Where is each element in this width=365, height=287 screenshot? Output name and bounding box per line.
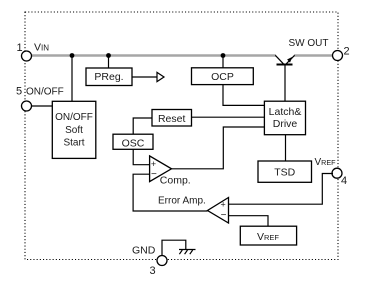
pin 1 VIN terminal xyxy=(22,51,32,61)
wire: PReg. output with open arrowhead xyxy=(132,72,164,81)
svg-text:Latch&: Latch& xyxy=(269,106,302,118)
svg-text:SW OUT: SW OUT xyxy=(289,38,329,49)
svg-text:VREF: VREF xyxy=(257,231,279,243)
wire: pin 3 to ground symbol xyxy=(162,240,186,255)
block: OSC xyxy=(113,134,153,149)
ground symbol xyxy=(179,250,196,255)
svg-text:−: − xyxy=(221,210,227,221)
wire: Error Amp. output to Comp. - input xyxy=(133,174,207,211)
wire: OSC output to Comp. + input xyxy=(133,149,149,164)
wire: Comp. output to Latch&Drive xyxy=(172,127,265,169)
op-amp Comp. (comparator) xyxy=(150,156,191,187)
block: PReg. xyxy=(86,68,132,86)
svg-text:5: 5 xyxy=(16,86,22,98)
wire: Reset left to OSC top xyxy=(133,118,152,134)
svg-text:+: + xyxy=(151,159,156,169)
wire: pin 4 to Error Amp. + input xyxy=(229,174,334,205)
wire: VIN rail (gray) from pin 1 to transistor xyxy=(32,54,277,56)
block: VREF reference xyxy=(240,226,296,245)
svg-text:OCP: OCP xyxy=(211,71,234,83)
wire: Error Amp. - input to VREF reference xyxy=(229,216,269,227)
node: VIN rail junction to OCP xyxy=(221,53,226,58)
pin 5 ON/OFF terminal xyxy=(22,101,32,111)
block: TSD xyxy=(258,161,312,182)
pin 3 GND terminal xyxy=(157,256,167,266)
svg-text:OSC: OSC xyxy=(122,137,145,149)
wire: Reset output to Latch&Drive xyxy=(192,116,265,118)
svg-text:Start: Start xyxy=(63,138,84,149)
pin 2 SW OUT terminal xyxy=(333,51,343,61)
svg-text:1: 1 xyxy=(16,42,22,54)
svg-text:Drive: Drive xyxy=(273,118,298,130)
svg-text:VIN: VIN xyxy=(34,41,49,53)
svg-text:Soft: Soft xyxy=(65,125,83,136)
wire: VIN rail to OCP top xyxy=(222,56,224,68)
svg-text:Reset: Reset xyxy=(158,113,186,125)
svg-text:Comp.: Comp. xyxy=(160,175,191,187)
op-amp Error Amp. xyxy=(158,195,229,223)
svg-text:3: 3 xyxy=(149,265,155,277)
wire: OCP output to Latch&Drive xyxy=(223,85,264,106)
wire: transistor base to Latch&Drive xyxy=(284,65,286,102)
svg-text:VREF: VREF xyxy=(315,157,337,168)
svg-text:2: 2 xyxy=(343,46,349,58)
block: Reset xyxy=(152,110,192,127)
svg-text:GND: GND xyxy=(132,244,156,256)
wire: Latch&Drive bottom to TSD xyxy=(285,135,287,161)
svg-text:+: + xyxy=(220,200,225,210)
IC package boundary (dashed) xyxy=(25,12,338,260)
pin 4 VREF terminal xyxy=(332,168,342,178)
block: OCP xyxy=(192,68,254,85)
wire: pin 5 to ON/OFF Soft Start xyxy=(32,105,53,107)
svg-text:PReg.: PReg. xyxy=(94,71,123,83)
block: Latch& Drive xyxy=(264,101,305,135)
transistor Q1 (NPN output switch) xyxy=(275,55,294,64)
svg-text:TSD: TSD xyxy=(274,167,295,179)
svg-text:4: 4 xyxy=(341,175,347,187)
wire: VIN rail to ON/OFF Soft Start top xyxy=(71,56,73,102)
wire: transistor emitter to pin 2 SW OUT (gray) xyxy=(294,54,333,56)
node: VIN rail junction to ON/OFF Soft Start xyxy=(70,53,75,58)
svg-text:ON/OFF: ON/OFF xyxy=(55,112,93,123)
svg-text:−: − xyxy=(151,169,157,180)
block: ON/OFF Soft Start xyxy=(52,101,96,158)
node: VIN rail junction to PReg. xyxy=(106,53,111,58)
wire: VIN rail to PReg. top xyxy=(108,56,110,69)
svg-text:ON/OFF: ON/OFF xyxy=(26,87,64,98)
svg-text:Error Amp.: Error Amp. xyxy=(158,195,206,206)
